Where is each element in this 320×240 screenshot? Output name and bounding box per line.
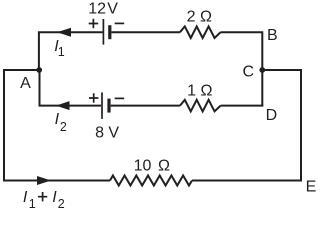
wire: resistor R(1Ω) right lead to node D [221,105,264,107]
label: + polarity of 8V battery [89,93,98,102]
svg-text:B: B [267,27,278,44]
battery B2 8V long (+) plate [101,92,103,119]
label: − polarity of 8V battery [115,97,125,99]
label: − polarity of 12V battery [115,22,125,24]
wire: node A down to middle branch, right to 8V battery + terminal [40,69,102,106]
arrow: current I2 (points left) [56,101,70,110]
svg-text:C: C [243,64,255,81]
wire: node A left, down outer-left side, bottom run to resistor R(10Ω) [4,70,110,181]
resistor R3 10Ω zigzag [110,176,192,186]
svg-text:1: 1 [58,45,65,59]
svg-text:I: I [55,111,60,128]
battery B1 12V long (+) plate [102,19,104,45]
wire: resistor R(2Ω) right lead to corner B, down vertical B-C-D [221,32,263,105]
svg-text:2: 2 [58,197,65,208]
svg-text:I: I [23,189,28,206]
label: + polarity of 12V battery [89,19,99,29]
svg-text:2 Ω: 2 Ω [187,9,212,26]
resistor R2 1Ω zigzag [180,100,221,112]
wire: node A up to top-left corner, right to 12V battery + terminal [39,32,103,71]
svg-text:I: I [52,189,57,206]
svg-text:E: E [306,179,317,196]
wire: node C right, down outer-right side to corner E [262,70,301,181]
battery B2 8V short (-) plate [107,99,110,113]
svg-text:8 V: 8 V [95,125,119,142]
wire: 12V battery - terminal to resistor R(2Ω) left lead [111,31,180,33]
arrow: current I1 (points left) [57,28,71,37]
svg-text:D: D [266,107,278,124]
svg-text:1 Ω: 1 Ω [187,82,212,99]
svg-text:Ω: Ω [158,157,170,174]
svg-text:V: V [107,0,118,17]
svg-text:12: 12 [88,0,106,17]
node C junction dot [259,67,265,73]
svg-text:A: A [20,75,31,92]
node A junction dot [36,67,42,73]
wire: resistor R(10Ω) right lead to corner E [192,180,302,182]
battery B1 12V short (-) plate [108,25,111,39]
resistor R1 2Ω zigzag [180,26,221,38]
arrow: current I1+I2 (points right) [37,176,51,185]
wire: 8V battery - terminal to resistor R(1Ω) left lead [111,105,180,107]
svg-text:1: 1 [29,197,36,208]
svg-text:10: 10 [134,157,152,174]
svg-text:2: 2 [60,120,67,134]
